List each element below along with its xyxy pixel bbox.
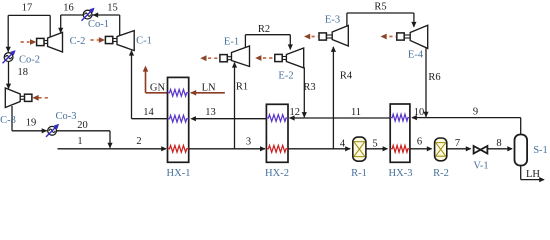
label R6 [428, 72, 440, 83]
wire stream 2 [110, 146, 167, 151]
label 3 [246, 137, 251, 148]
shaft C-3 [20, 96, 24, 99]
shaft C-2 [44, 41, 48, 44]
wire R6 E-4 exhaust to stream 9 [423, 48, 428, 117]
svg-text:9: 9 [473, 107, 478, 118]
shaft E-3 [326, 35, 332, 38]
work square E-3 [319, 33, 326, 40]
wire stream 10 into HX-3 [411, 115, 426, 120]
svg-text:E-2: E-2 [278, 71, 293, 82]
svg-text:R2: R2 [258, 24, 270, 35]
label GN [150, 83, 166, 94]
wire stream 7 [447, 146, 471, 151]
label 9 [473, 107, 478, 118]
label R4 [340, 71, 353, 82]
label E-3 [325, 15, 340, 26]
shaft C-1 [112, 39, 117, 42]
label 5 [372, 139, 377, 150]
label E-2 [278, 71, 293, 82]
wire stream 13 into HX-1 [190, 116, 266, 121]
svg-text:LH: LH [526, 169, 540, 180]
wire stream 19 C-3 to Co-3 [12, 106, 47, 133]
shaft E-2 [282, 57, 286, 60]
work square E-2 [275, 54, 282, 61]
work arrow into C-1 [91, 37, 106, 43]
wire stream 12 into HX-2 [289, 115, 304, 120]
svg-text:Co-1: Co-1 [88, 19, 109, 30]
separator S-1 [515, 135, 528, 166]
svg-text:GN: GN [150, 83, 166, 94]
svg-text:15: 15 [107, 3, 118, 14]
svg-text:R-1: R-1 [351, 168, 367, 179]
label 11 [351, 107, 361, 118]
wire LH liquid hydrogen product out [521, 165, 545, 182]
svg-text:3: 3 [246, 137, 251, 148]
label C-1 [136, 36, 152, 47]
cooler Co-2 [3, 50, 16, 63]
label R3 [303, 82, 315, 93]
compressor C-1 [117, 31, 134, 51]
wire stream 11 [304, 117, 390, 119]
svg-text:HX-2: HX-2 [265, 168, 289, 179]
wire stream 15 C-1 to cooler Co-1 [92, 12, 120, 35]
wire R4 expander E-3 feed from stream 4 [331, 46, 336, 149]
label LN [202, 83, 216, 94]
label R-1 [351, 168, 367, 179]
work square E-4 [397, 33, 404, 40]
label Co-3 [56, 111, 77, 122]
label C-2 [70, 36, 86, 47]
wire stream 3 [189, 146, 266, 151]
wire stream 9 from separator top [426, 118, 521, 136]
label LH [526, 169, 540, 180]
label S-1 [533, 145, 548, 156]
shaft E-4 [404, 35, 410, 38]
svg-text:5: 5 [372, 139, 377, 150]
work square C-1 [105, 36, 112, 43]
svg-text:R6: R6 [428, 72, 440, 83]
wire R3 E-2 exhaust to stream 11 [302, 67, 307, 117]
svg-text:17: 17 [22, 3, 33, 14]
wire stream 4 [288, 146, 351, 151]
svg-text:Co-2: Co-2 [19, 55, 40, 66]
label 6 [417, 137, 422, 148]
work square E-1 [220, 55, 227, 62]
label E-4 [408, 50, 424, 61]
svg-text:E-4: E-4 [408, 50, 424, 61]
coil HX-1 feed bottom [168, 145, 189, 152]
expander E-2 [286, 48, 303, 68]
heat exchanger HX-2 [266, 104, 288, 162]
svg-text:11: 11 [351, 107, 361, 118]
svg-text:6: 6 [417, 137, 422, 148]
compressor C-3 [5, 88, 20, 108]
label 15 [107, 3, 118, 14]
coil HX-1 return middle [168, 115, 189, 122]
label V-1 [473, 161, 488, 172]
svg-text:16: 16 [63, 3, 74, 14]
coil HX-2 return top [266, 115, 288, 122]
svg-text:4: 4 [340, 139, 346, 150]
wire R5 E-3 to E-4 [347, 13, 417, 28]
expander E-4 [410, 25, 428, 48]
wire stream 1 feed [58, 148, 111, 150]
work arrow into C-3 [32, 95, 49, 101]
coil HX-3 return top [390, 114, 410, 121]
label R-2 [433, 168, 449, 179]
valve V-1 [474, 146, 488, 154]
svg-text:Co-3: Co-3 [56, 111, 77, 122]
svg-text:R4: R4 [340, 71, 353, 82]
svg-text:R1: R1 [236, 82, 248, 93]
wire R1 expander E-1 feed from stream 3 [232, 62, 237, 149]
label 13 [205, 107, 216, 118]
wire stream 14 to compressor C-1 [129, 50, 168, 119]
wire stream 16 Co-1 to C-2 [58, 15, 83, 33]
wire R2 E-1 to E-2 [245, 35, 293, 50]
coil HX-1 nitrogen top [168, 89, 189, 96]
label 19 [26, 118, 37, 129]
svg-text:18: 18 [18, 67, 29, 78]
svg-text:R5: R5 [374, 2, 386, 13]
svg-text:HX-1: HX-1 [167, 168, 191, 179]
cooler Co-1 [82, 8, 95, 21]
wire stream 20 Co-3 to feed junction [57, 131, 110, 148]
coil HX-3 feed bottom [390, 145, 410, 152]
label 16 [63, 3, 74, 14]
wire stream 17 C-2 to Co-2 [6, 15, 51, 52]
heat exchanger HX-3 [390, 104, 410, 162]
svg-text:20: 20 [77, 120, 88, 131]
label 2 [136, 136, 141, 147]
label 10 [414, 107, 425, 118]
label 1 [77, 136, 82, 147]
wire GN gaseous nitrogen out [143, 66, 168, 93]
label 20 [77, 120, 88, 131]
label 4 [340, 139, 346, 150]
svg-text:E-1: E-1 [224, 37, 239, 48]
svg-text:HX-3: HX-3 [389, 168, 413, 179]
work arrow into C-2 [21, 39, 37, 45]
work square C-3 [25, 94, 32, 101]
svg-text:V-1: V-1 [473, 161, 488, 172]
svg-text:R3: R3 [303, 82, 315, 93]
svg-text:C-3: C-3 [0, 115, 16, 126]
svg-text:LN: LN [202, 83, 216, 94]
svg-text:12: 12 [290, 107, 301, 118]
label C-3 [0, 115, 16, 126]
label E-1 [224, 37, 239, 48]
label 18 [18, 67, 29, 78]
svg-text:19: 19 [26, 118, 37, 129]
adsorber R-1 [353, 137, 366, 161]
wire stream 8 [488, 146, 513, 151]
svg-text:7: 7 [455, 138, 460, 149]
work arrow out of E-1 [200, 55, 219, 61]
label R5 [374, 2, 386, 13]
label 8 [496, 138, 501, 149]
coil HX-2 feed bottom [266, 145, 288, 152]
wire stream 5 [366, 146, 388, 151]
label HX-3 [389, 168, 413, 179]
expander E-1 [232, 46, 250, 67]
label Co-1 [88, 19, 109, 30]
svg-text:8: 8 [496, 138, 501, 149]
svg-text:C-2: C-2 [70, 36, 86, 47]
compressor C-2 [48, 32, 63, 52]
cooler Co-3 [46, 124, 59, 137]
svg-text:14: 14 [143, 107, 154, 118]
label 14 [143, 107, 154, 118]
label 12 [290, 107, 301, 118]
adsorber R-2 [435, 138, 447, 161]
svg-text:10: 10 [414, 107, 425, 118]
svg-text:R-2: R-2 [433, 168, 449, 179]
expander E-3 [332, 26, 348, 47]
svg-text:1: 1 [77, 136, 82, 147]
shaft E-1 [227, 57, 231, 60]
node junction stream 1 + 20 [107, 143, 112, 149]
svg-text:13: 13 [205, 107, 216, 118]
svg-text:C-1: C-1 [136, 36, 152, 47]
label 17 [22, 3, 33, 14]
work arrow out of E-4 [381, 34, 397, 40]
label R2 [258, 24, 270, 35]
wire stream 6 [410, 146, 433, 151]
wire LN liquid nitrogen in [190, 90, 225, 96]
label R1 [236, 82, 248, 93]
label Co-2 [19, 55, 40, 66]
work arrow out of E-2 [255, 55, 274, 61]
heat exchanger HX-1 [168, 77, 189, 162]
work square C-2 [37, 38, 44, 45]
label HX-2 [265, 168, 289, 179]
label 7 [455, 138, 460, 149]
svg-text:2: 2 [136, 136, 141, 147]
label HX-1 [167, 168, 191, 179]
work arrow out of E-3 [304, 34, 318, 40]
svg-text:S-1: S-1 [533, 145, 548, 156]
wire stream 18 Co-2 to C-3 [6, 62, 11, 89]
svg-text:E-3: E-3 [325, 15, 340, 26]
